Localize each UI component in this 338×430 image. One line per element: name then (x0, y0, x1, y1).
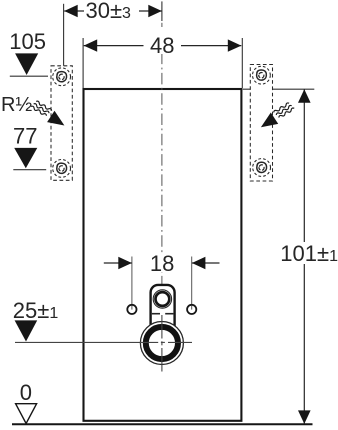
svg-text:48: 48 (150, 33, 174, 58)
svg-text:77: 77 (13, 124, 37, 149)
svg-text:105: 105 (9, 29, 46, 54)
svg-text:18: 18 (150, 251, 174, 276)
svg-text:0: 0 (20, 380, 32, 405)
svg-text:R½: R½ (1, 94, 32, 116)
